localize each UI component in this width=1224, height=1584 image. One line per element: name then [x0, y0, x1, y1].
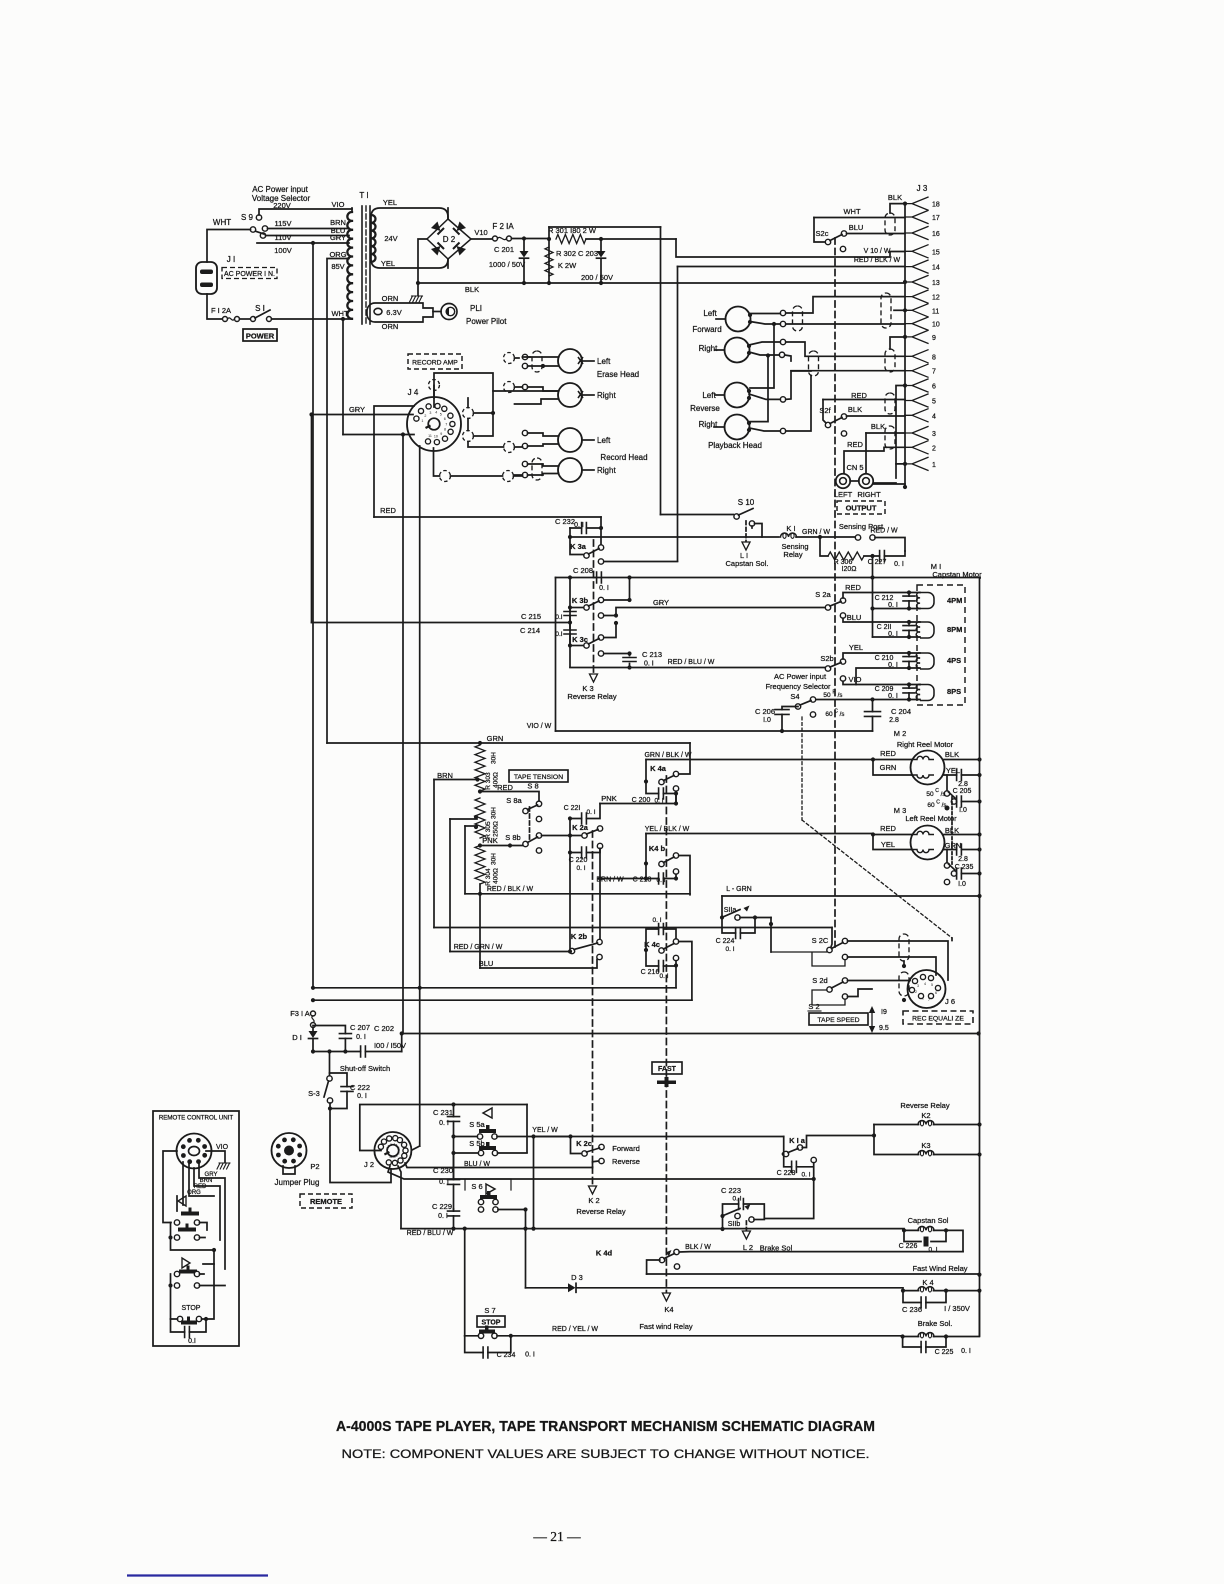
svg-text:Forward: Forward — [692, 325, 721, 334]
svg-text:Reverse Relay: Reverse Relay — [576, 1207, 625, 1216]
playback head reverse left — [725, 383, 750, 408]
pin 14 of J3 — [905, 260, 928, 273]
svg-text:RED / BLU / W: RED / BLU / W — [407, 1230, 454, 1237]
pin 2 of J3 — [905, 441, 928, 454]
svg-text:RED: RED — [380, 506, 396, 515]
svg-text:0. I: 0. I — [659, 973, 668, 980]
svg-text:J 4: J 4 — [408, 388, 419, 397]
svg-text:2: 2 — [915, 990, 917, 994]
wire YEL/W to K1a — [534, 1136, 784, 1138]
svg-text:K4 b: K4 b — [649, 844, 666, 853]
svg-text:Forward: Forward — [612, 1144, 640, 1153]
svg-text:S I: S I — [255, 304, 265, 313]
svg-text:J 3: J 3 — [917, 184, 928, 193]
svg-text:K I: K I — [786, 524, 795, 533]
wire 8PS bottom — [816, 699, 920, 701]
wire GRY to S2a — [604, 608, 826, 616]
svg-text:BLU: BLU — [849, 223, 864, 232]
svg-text:30H: 30H — [491, 752, 498, 764]
svg-text:YEL: YEL — [946, 766, 960, 775]
svg-text:Right Reel Motor: Right Reel Motor — [897, 740, 954, 749]
svg-text:C: C — [834, 709, 838, 715]
record head left — [558, 428, 582, 452]
svg-text:S 2d: S 2d — [812, 976, 827, 985]
svg-text:VIO / W: VIO / W — [527, 723, 552, 730]
wire fwd-right gnd to pin7 — [779, 352, 784, 357]
svg-text:4: 4 — [932, 413, 936, 420]
shield capsule playback right — [809, 351, 819, 376]
svg-text:9: 9 — [440, 432, 442, 436]
via dashed circle record head right — [503, 471, 514, 482]
plug P2 jumper — [272, 1133, 307, 1168]
svg-text:8: 8 — [444, 428, 446, 432]
wire bridge output V10 — [471, 238, 492, 240]
svg-text:24V: 24V — [384, 234, 397, 243]
switch S11b — [720, 1214, 724, 1218]
wire BLK CN5 right — [865, 433, 867, 474]
svg-text:WHT: WHT — [331, 309, 348, 318]
vertical x533 to RED/BLU/W — [533, 1137, 535, 1229]
svg-text:Jumper Plug: Jumper Plug — [275, 1178, 320, 1187]
svg-text:Right: Right — [597, 466, 616, 475]
wire record amp to record heads — [515, 447, 523, 475]
pin 12 of J3 — [905, 290, 928, 303]
node WHT vertical — [341, 317, 345, 321]
wire F2 to C201 junction — [512, 238, 550, 240]
svg-text:LEFT: LEFT — [834, 490, 853, 499]
svg-text:BLU: BLU — [479, 959, 494, 968]
wire M3 top — [873, 834, 980, 836]
svg-text:11: 11 — [428, 434, 432, 438]
svg-text:0. I: 0. I — [656, 877, 665, 884]
svg-text:GRN / W: GRN / W — [802, 529, 830, 536]
dashed S2 gang linkage — [834, 238, 836, 947]
svg-text:S 8a: S 8a — [506, 796, 522, 805]
left vertical BRN loop — [433, 780, 435, 928]
wire J2 pin3 to S5 rail — [360, 1105, 527, 1151]
dotted diagonal S4 frequency linkage — [802, 820, 952, 938]
ground symbol — [417, 283, 419, 295]
svg-text:WHT: WHT — [213, 218, 231, 227]
resistor R303 400ohm 30H — [475, 745, 485, 791]
svg-text:YEL: YEL — [381, 259, 395, 268]
arrow K4 fast wind relay — [662, 1293, 670, 1301]
wire ORG 85V tap — [327, 259, 349, 744]
svg-text:RED: RED — [880, 749, 896, 758]
svg-text:GRN: GRN — [487, 734, 504, 743]
svg-text:1: 1 — [421, 419, 423, 423]
pin 17 of J3 — [905, 211, 928, 224]
wire to M1 bus — [872, 556, 874, 578]
pin 4 of J3 — [905, 409, 928, 422]
svg-text:K 2a: K 2a — [572, 823, 589, 832]
long vertical from J4 pin11 — [402, 435, 404, 1034]
svg-text:K 2: K 2 — [588, 1196, 599, 1205]
svg-text:S2f: S2f — [819, 406, 831, 415]
svg-text:2.8: 2.8 — [958, 856, 968, 863]
svg-text:T I: T I — [359, 191, 368, 200]
svg-text:C 218: C 218 — [633, 877, 652, 884]
svg-text:0. I: 0. I — [586, 809, 595, 816]
svg-text:YEL / BLK / W: YEL / BLK / W — [645, 826, 690, 833]
arrow K2 reverse relay — [589, 1186, 597, 1194]
left vertical BLU — [479, 894, 481, 968]
wire S3 to J2 — [330, 1109, 391, 1183]
svg-text:8PM: 8PM — [947, 625, 962, 634]
record head right wires — [522, 461, 527, 466]
svg-text:RED / GRN / W: RED / GRN / W — [454, 944, 503, 951]
capacitor C205 1.0 — [957, 801, 980, 803]
svg-text:Capstan Sol.: Capstan Sol. — [726, 559, 769, 568]
capacitor C217 0.1 top — [646, 929, 676, 950]
svg-text:YEL / W: YEL / W — [532, 1127, 558, 1134]
dashed K2 linkage — [592, 831, 594, 1186]
wire M3 bottom — [873, 835, 980, 850]
svg-text:D I: D I — [292, 1033, 302, 1042]
rectifier bridge D2 — [427, 219, 471, 259]
svg-text:D 3: D 3 — [571, 1273, 583, 1282]
pin 3 of J3 — [905, 427, 928, 440]
svg-text:/s: /s — [941, 792, 946, 798]
socket J6 — [908, 970, 946, 1008]
svg-text:18: 18 — [932, 202, 940, 209]
svg-text:0.I: 0.I — [555, 614, 562, 621]
svg-text:10: 10 — [392, 1155, 396, 1159]
svg-text:0.I: 0.I — [188, 1338, 196, 1345]
svg-text:2.8: 2.8 — [889, 717, 899, 724]
svg-text:7: 7 — [928, 998, 930, 1002]
svg-text:GRY: GRY — [330, 233, 346, 242]
svg-text:F 2 IA: F 2 IA — [492, 222, 514, 231]
node 110V junction — [311, 241, 315, 245]
wire K3c NO — [604, 623, 616, 638]
svg-text:K I a: K I a — [789, 1136, 806, 1145]
wire S8b to K2a — [542, 835, 582, 837]
svg-text:F I 2A: F I 2A — [211, 306, 231, 315]
long vertical 110V tap — [312, 243, 314, 988]
svg-text:C 230: C 230 — [433, 1166, 453, 1175]
svg-text:50: 50 — [823, 692, 831, 699]
long vertical J4 pin10 to J2 — [419, 446, 421, 1146]
shield capsule playback left — [793, 306, 803, 331]
svg-text:0. I: 0. I — [438, 1213, 448, 1220]
wire reverse-left parallel — [750, 324, 774, 388]
wire 8PM bottom — [873, 636, 921, 638]
svg-text:0. I: 0. I — [654, 798, 663, 805]
svg-text:Reverse Relay: Reverse Relay — [900, 1101, 949, 1110]
svg-text:C 214: C 214 — [520, 626, 540, 635]
svg-text:REMOTE CONTROL UNIT: REMOTE CONTROL UNIT — [159, 1115, 234, 1122]
wire GRN — [327, 742, 690, 744]
record head right — [558, 458, 582, 482]
svg-text:3: 3 — [390, 1143, 392, 1147]
svg-text:FAST: FAST — [658, 1066, 677, 1073]
svg-text:6: 6 — [935, 991, 937, 995]
wire J3 bus — [904, 204, 906, 487]
svg-text:1000 / 50V: 1000 / 50V — [489, 260, 525, 269]
svg-text:I.0: I.0 — [959, 807, 967, 814]
svg-text:S 5a: S 5a — [469, 1120, 485, 1129]
svg-text:0. I: 0. I — [894, 561, 904, 568]
svg-text:6: 6 — [932, 384, 936, 391]
svg-text:Relay: Relay — [783, 550, 802, 559]
svg-text:3: 3 — [932, 431, 936, 438]
svg-text:0. I: 0. I — [599, 585, 609, 592]
wire WHT from J1 to S9 — [207, 230, 251, 263]
long vertical WHT — [342, 319, 344, 435]
svg-text:CN 5: CN 5 — [846, 463, 863, 472]
box FAST — [652, 1062, 682, 1074]
wire V10/W branch — [676, 239, 905, 257]
svg-text:VIO: VIO — [849, 675, 862, 684]
svg-text:RED / YEL / W: RED / YEL / W — [552, 1326, 598, 1333]
svg-text:115V: 115V — [275, 219, 292, 228]
svg-text:Left: Left — [703, 309, 717, 318]
via dashed circles record amp right — [504, 353, 515, 364]
long vertical right bus — [979, 578, 982, 1337]
capacitor C200 0.1 — [646, 782, 676, 804]
svg-text:C 220: C 220 — [569, 857, 588, 864]
wire J4 pin2 stub — [374, 406, 414, 517]
svg-text:Reverse: Reverse — [612, 1157, 640, 1166]
svg-text:13: 13 — [932, 280, 940, 287]
dashed S8 linkage — [529, 807, 531, 841]
wire RED/BLK/W — [465, 893, 690, 895]
wire S6 box — [454, 1179, 512, 1190]
svg-text:S 10: S 10 — [738, 498, 755, 507]
shield capsule pin2 — [885, 426, 895, 449]
wire rev-right gnd — [780, 428, 785, 433]
resistor R305 250ohm 30H — [475, 798, 485, 838]
wire S2f common — [823, 400, 826, 424]
block K3b K3c left rail — [555, 578, 557, 732]
svg-text:TAPE TENSION: TAPE TENSION — [514, 774, 563, 781]
wire rev-left hot — [780, 397, 785, 402]
wire 220V tap — [259, 209, 352, 215]
svg-text:C 223: C 223 — [721, 1186, 741, 1195]
svg-text:K 2c: K 2c — [576, 1139, 592, 1148]
svg-text:5: 5 — [440, 412, 442, 416]
svg-text:Playback Head: Playback Head — [708, 441, 762, 450]
svg-text:0. I: 0. I — [928, 1247, 937, 1254]
pin 9 of J3 — [905, 330, 928, 343]
capacitor C201 1000/50V — [523, 239, 525, 252]
svg-text:S 6: S 6 — [471, 1182, 482, 1191]
svg-text:11: 11 — [932, 308, 939, 315]
shield capsule J6 upper — [899, 934, 909, 961]
svg-text:R 303: R 303 — [485, 772, 492, 790]
svg-text:K 3a: K 3a — [570, 542, 587, 551]
transformer T1 secondary 24V winding — [371, 208, 448, 268]
svg-text:C 210: C 210 — [875, 655, 894, 662]
svg-text:16: 16 — [932, 231, 940, 238]
wire GRN down to K4a NO — [679, 743, 690, 774]
svg-text:8: 8 — [932, 354, 936, 361]
dotted M2 M3 linkage — [951, 797, 953, 864]
svg-text:11: 11 — [389, 1155, 393, 1159]
svg-text:3: 3 — [429, 411, 431, 415]
svg-text:C 235: C 235 — [955, 864, 974, 871]
svg-text:12: 12 — [932, 295, 940, 302]
svg-text:C 207: C 207 — [350, 1023, 370, 1032]
wire 4PM bottom — [873, 608, 921, 610]
wire M1 left vertical — [872, 578, 874, 638]
svg-text:D 2: D 2 — [443, 235, 456, 244]
left vertical to RED/BLK/W — [464, 826, 466, 894]
svg-text:RED / BLU / W: RED / BLU / W — [668, 659, 715, 666]
wire from GRY vertical — [312, 622, 571, 624]
svg-text:GRN / BLK / W: GRN / BLK / W — [644, 752, 691, 759]
svg-text:K 3b: K 3b — [572, 596, 589, 605]
svg-text:85V: 85V — [331, 262, 344, 271]
svg-text:YEL: YEL — [849, 643, 863, 652]
shield capsule S2c cable — [885, 213, 895, 235]
svg-text:Left: Left — [597, 436, 611, 445]
erase head right wires — [522, 384, 527, 389]
wire RED to S8a — [480, 792, 539, 802]
svg-text:250Ω: 250Ω — [493, 821, 500, 837]
svg-text:BLK: BLK — [871, 422, 885, 431]
svg-text:BLU: BLU — [847, 613, 862, 622]
svg-text:9: 9 — [932, 335, 936, 342]
pin 1 of J3 — [905, 457, 928, 470]
svg-text:Reverse Relay: Reverse Relay — [567, 692, 616, 701]
svg-text:NOTE: COMPONENT VALUES ARE: NOTE: COMPONENT VALUES ARE SUBJECT TO CH… — [342, 1447, 870, 1461]
svg-text:BLK: BLK — [465, 285, 479, 294]
svg-text:5: 5 — [932, 399, 936, 406]
svg-text:S 2C: S 2C — [812, 936, 829, 945]
wire 115V tap — [268, 228, 350, 230]
wire pin6 to CN5 area — [896, 386, 905, 464]
svg-text:Record Head: Record Head — [600, 453, 647, 462]
tap R305 upper — [450, 818, 477, 820]
capacitor remote 0.1 — [171, 1319, 207, 1332]
svg-text:2: 2 — [932, 445, 936, 452]
dashed K3 linkage — [593, 540, 595, 674]
svg-text:C 232: C 232 — [555, 517, 575, 526]
svg-text:7: 7 — [932, 369, 936, 376]
svg-text:Fast wind Relay: Fast wind Relay — [639, 1322, 693, 1331]
switch M2 frequency 50/60 — [946, 775, 948, 792]
box POWER — [243, 329, 277, 341]
svg-text:C 215: C 215 — [521, 612, 541, 621]
svg-text:K4: K4 — [664, 1305, 673, 1314]
wire J2 pin1 down to RED/BLU/W — [398, 1166, 401, 1229]
long vertical from top loop — [660, 227, 662, 515]
tap R305 lower — [465, 825, 477, 827]
wire fwd-left gnd to pin10 — [780, 321, 785, 326]
wire K1a to S11b — [812, 1177, 816, 1181]
long vertical GRY — [311, 415, 313, 623]
svg-text:I20Ω: I20Ω — [842, 566, 857, 573]
svg-text:— 21 —: — 21 — — [532, 1529, 581, 1544]
svg-text:1: 1 — [932, 462, 936, 469]
resistor R306 120ohm — [820, 537, 828, 556]
svg-text:C 222: C 222 — [350, 1083, 370, 1092]
svg-text:C: C — [935, 788, 939, 794]
pin 13 of J3 — [905, 276, 928, 289]
svg-text:I.0: I.0 — [763, 717, 771, 724]
erase head left wires — [522, 354, 527, 359]
svg-text:Fast Wind Relay: Fast Wind Relay — [912, 1264, 967, 1273]
svg-text:0. I: 0. I — [732, 1196, 741, 1203]
svg-text:C 206: C 206 — [755, 707, 775, 716]
box TAPE TENSION — [509, 770, 568, 782]
box REMOTE CONTROL UNIT — [153, 1111, 239, 1346]
pin 8 of J3 — [905, 350, 928, 363]
wire RED/BLK/W to pin14 — [678, 266, 906, 268]
wire RED/YEL/W to brake sol — [511, 1335, 903, 1337]
svg-text:BLK: BLK — [945, 750, 959, 759]
wire RED to C232 — [374, 516, 601, 518]
svg-text:BLU / W: BLU / W — [464, 1161, 490, 1168]
vertical to S7 — [464, 1229, 466, 1336]
svg-text:C 213: C 213 — [642, 650, 662, 659]
vertical BRN/W rail — [599, 849, 601, 942]
erase head left — [558, 349, 582, 373]
switch S11a — [721, 896, 723, 915]
wire BLU — [480, 960, 597, 969]
svg-text:R 302: R 302 — [556, 249, 576, 258]
svg-text:K 4: K 4 — [922, 1278, 933, 1287]
svg-text:6: 6 — [444, 417, 446, 421]
contact S2C spare — [842, 954, 847, 959]
shield capsule RED pin5 — [885, 393, 895, 414]
svg-text:SIIb: SIIb — [728, 1221, 741, 1228]
svg-text:2: 2 — [424, 414, 426, 418]
svg-text:K2: K2 — [921, 1111, 930, 1120]
switch S6 second pole — [478, 1207, 483, 1212]
wire BRN tap — [434, 779, 477, 781]
playback head forward right — [725, 338, 750, 363]
svg-text:C 226: C 226 — [899, 1243, 918, 1250]
dashed K4 linkage — [665, 776, 667, 1293]
svg-text:S 8: S 8 — [527, 782, 538, 791]
svg-text:8PS: 8PS — [947, 687, 961, 696]
jack CN5 right output — [859, 474, 873, 488]
svg-text:4: 4 — [435, 411, 437, 415]
wire fuse branch lines — [313, 988, 692, 1000]
svg-text:TAPE SPEED: TAPE SPEED — [817, 1017, 859, 1024]
node C202 to long wire — [400, 1031, 404, 1035]
svg-text:F3 I A: F3 I A — [290, 1009, 310, 1018]
svg-text:C 2II: C 2II — [877, 624, 892, 631]
rail S5 to RED/BLU/W — [453, 1137, 455, 1180]
wire pin7 row — [791, 370, 905, 372]
resistor R302 K 2W — [545, 247, 553, 276]
arrow L2 brake sol — [745, 1221, 747, 1231]
vertical K2a rail — [569, 819, 571, 952]
svg-text:R 304: R 304 — [485, 868, 492, 886]
svg-text:RED / W: RED / W — [870, 528, 898, 535]
svg-text:0. I: 0. I — [357, 1093, 367, 1100]
svg-text:110V: 110V — [275, 233, 292, 242]
svg-text:GRN: GRN — [880, 763, 897, 772]
svg-text:3: 3 — [917, 984, 919, 988]
svg-text:OUTPUT: OUTPUT — [846, 504, 877, 513]
svg-text:0. I: 0. I — [525, 1352, 535, 1359]
playback head forward left — [726, 307, 751, 332]
svg-text:V 10 / W: V 10 / W — [864, 248, 891, 255]
svg-text:17: 17 — [932, 215, 940, 222]
wire S5 right rail — [526, 1105, 528, 1153]
pin 10 of J3 — [905, 317, 928, 330]
svg-text:30H: 30H — [491, 853, 498, 865]
svg-text:I9: I9 — [881, 1009, 887, 1016]
svg-text:S 7: S 7 — [484, 1306, 495, 1315]
wire S10 line — [661, 514, 734, 516]
svg-text:C 204: C 204 — [891, 707, 911, 716]
